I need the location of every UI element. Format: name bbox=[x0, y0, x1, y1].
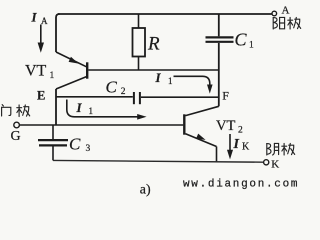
svg-text:1: 1 bbox=[249, 41, 254, 51]
svg-text:ww.diangon.com: ww.diangon.com bbox=[183, 178, 299, 190]
capacitor C1 bbox=[206, 14, 234, 42]
wire: gate row (G to VT2 base) bbox=[20, 124, 184, 126]
svg-text:K: K bbox=[242, 142, 250, 153]
svg-text:VT: VT bbox=[216, 118, 235, 134]
terminal G (gate) bbox=[14, 122, 20, 128]
capacitor C3 bbox=[38, 125, 68, 160]
wire: cathode bottom rail bbox=[53, 160, 263, 162]
svg-text:C: C bbox=[106, 77, 118, 96]
label VT2 bbox=[216, 118, 243, 135]
label C2 bbox=[106, 77, 126, 97]
svg-text:3: 3 bbox=[86, 144, 91, 154]
transistor VT1 (PNP) bbox=[56, 52, 219, 89]
svg-text:I: I bbox=[233, 137, 240, 152]
svg-text:VT: VT bbox=[25, 63, 47, 80]
label VT1 bbox=[25, 63, 55, 81]
wire: right vertical (C1 to VT2 collector) bbox=[218, 43, 220, 106]
svg-text:E: E bbox=[37, 89, 45, 103]
terminal A (anode) bbox=[272, 11, 277, 16]
label 门极 (gate) bbox=[2, 105, 30, 117]
svg-text:2: 2 bbox=[121, 87, 126, 97]
label I1 (left) bbox=[76, 100, 94, 116]
label I_A bbox=[31, 9, 49, 26]
wire: top anode rail bbox=[58, 13, 272, 15]
label 阳极 (anode) bbox=[273, 17, 300, 29]
label C3 bbox=[69, 134, 91, 154]
svg-text:2: 2 bbox=[238, 125, 243, 135]
label 阴极 (cathode) bbox=[267, 143, 295, 155]
svg-text:1: 1 bbox=[50, 71, 55, 81]
label I_K bbox=[233, 137, 251, 152]
current arrow I1 (left) bbox=[67, 100, 147, 120]
svg-text:1: 1 bbox=[168, 76, 173, 86]
wire: left vertical (anode to VT1 emitter) bbox=[56, 14, 60, 52]
current arrow I_A bbox=[38, 25, 44, 53]
wire: E row right segment bbox=[141, 96, 219, 98]
svg-text:A: A bbox=[41, 16, 48, 26]
svg-text:G: G bbox=[11, 129, 21, 144]
svg-text:C: C bbox=[235, 30, 248, 50]
capacitor C2 bbox=[134, 92, 140, 104]
svg-text:A: A bbox=[282, 5, 290, 17]
current arrow I_K bbox=[227, 134, 233, 159]
current arrow I1 (right) bbox=[174, 76, 213, 93]
svg-text:I: I bbox=[31, 9, 38, 24]
label C1 bbox=[235, 30, 255, 51]
svg-text:a): a) bbox=[140, 183, 151, 198]
wire: left vertical lower (collector to gate row) bbox=[55, 89, 57, 126]
wire: E row left segment bbox=[56, 96, 133, 98]
svg-text:I: I bbox=[76, 100, 83, 115]
svg-text:1: 1 bbox=[89, 106, 94, 116]
label I1 (right) bbox=[155, 70, 173, 86]
resistor R bbox=[133, 14, 146, 71]
svg-text:C: C bbox=[69, 134, 81, 153]
terminal K (cathode) bbox=[264, 160, 269, 165]
svg-text:K: K bbox=[271, 159, 279, 171]
transistor VT2 (NPN) bbox=[184, 106, 219, 161]
svg-text:I: I bbox=[155, 70, 162, 85]
svg-text:R: R bbox=[147, 34, 160, 55]
svg-text:F: F bbox=[222, 89, 229, 103]
